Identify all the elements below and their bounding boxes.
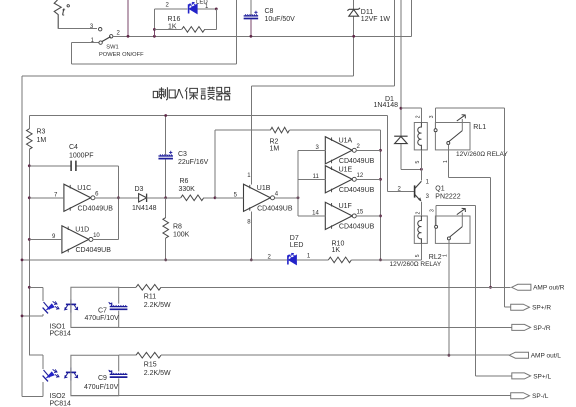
svg-text:LED: LED [290, 242, 304, 249]
svg-text:CD4049UB: CD4049UB [339, 158, 375, 165]
wire [401, 108, 422, 122]
inverter U1C [54, 184, 113, 212]
connector SP-/L [511, 393, 549, 400]
wire +12V rail [113, 0, 411, 36]
title text [153, 87, 230, 100]
wire [154, 9, 216, 30]
svg-text:U1A: U1A [339, 137, 353, 144]
wire RL1 common [443, 145, 492, 289]
svg-text:12VF: 12VF [361, 16, 378, 23]
svg-text:D7: D7 [290, 235, 299, 242]
relay RL2 coil [414, 216, 427, 243]
svg-text:PN2222: PN2222 [435, 194, 460, 201]
resistor R2 [214, 127, 381, 199]
wire [274, 196, 299, 199]
wire [356, 215, 380, 217]
capacitor C3 [158, 114, 208, 199]
wire [93, 238, 119, 240]
wire +12V distribution [22, 76, 354, 396]
wire ISO2 box [71, 355, 119, 396]
capacitor C8 [244, 0, 296, 38]
zener D11 [347, 0, 390, 76]
svg-text:12V/260Ω RELAY: 12V/260Ω RELAY [456, 151, 508, 158]
svg-text:10uF/50V: 10uF/50V [265, 16, 296, 23]
svg-text:R2: R2 [270, 138, 279, 145]
svg-text:AMP out/R: AMP out/R [533, 285, 565, 292]
svg-text:1M: 1M [270, 145, 280, 152]
svg-text:SP+/R: SP+/R [532, 305, 551, 312]
svg-text:6: 6 [95, 192, 99, 198]
wire [29, 287, 43, 301]
svg-text:2: 2 [357, 144, 361, 150]
svg-text:1W: 1W [380, 16, 391, 23]
svg-text:330K: 330K [179, 186, 196, 193]
svg-text:U1F: U1F [339, 203, 352, 210]
transistor Q1 [398, 180, 461, 202]
svg-text:U1B: U1B [257, 185, 271, 192]
wire RL2 pin5 [420, 243, 422, 260]
LED D7 [268, 235, 311, 264]
wire [22, 382, 43, 397]
svg-text:RL1: RL1 [473, 124, 486, 131]
svg-text:POWER ON/OFF: POWER ON/OFF [99, 52, 144, 58]
svg-text:RL2: RL2 [429, 254, 442, 261]
wire U1B pin8 stub [247, 212, 252, 262]
svg-text:CD4049UB: CD4049UB [76, 247, 112, 254]
inverter U1E [313, 166, 375, 194]
svg-text:R16: R16 [168, 16, 181, 23]
label [416, 115, 422, 118]
resistor R15 [119, 352, 509, 377]
connector SP+/R [511, 304, 552, 311]
svg-text:LED: LED [196, 0, 208, 5]
wire RL2 pin3 to SP+/L [436, 205, 512, 376]
relay RL1 contact [429, 108, 508, 158]
svg-text:3: 3 [429, 209, 435, 212]
svg-text:CD4049UB: CD4049UB [257, 206, 293, 213]
svg-text:t: t [62, 7, 66, 19]
svg-text:5: 5 [415, 161, 421, 164]
svg-text:R15: R15 [144, 362, 157, 369]
svg-text:470uF/10V: 470uF/10V [85, 315, 120, 322]
wire output bus [379, 130, 382, 261]
wire [117, 166, 120, 240]
svg-text:D3: D3 [135, 186, 144, 193]
wire [29, 355, 43, 369]
thermal fuse t [54, 0, 69, 29]
wire [154, 7, 217, 10]
wire [28, 149, 31, 355]
wire [95, 197, 119, 199]
inverter U1D [52, 226, 111, 254]
svg-text:1M: 1M [37, 137, 47, 144]
svg-text:ISO1: ISO1 [50, 323, 66, 330]
wire U1B pin1 stub [247, 173, 251, 184]
svg-text:1: 1 [247, 173, 251, 179]
svg-text:1K: 1K [332, 247, 341, 254]
switch SW1 [90, 24, 144, 58]
wire [21, 259, 287, 262]
wire SP-/R bus [71, 326, 512, 328]
svg-text:1000PF: 1000PF [69, 152, 94, 159]
wire input bus [297, 150, 299, 216]
wire RL2 common [448, 240, 451, 357]
svg-text:1N4148: 1N4148 [374, 102, 399, 109]
wire [153, 29, 155, 36]
wire [298, 149, 325, 151]
diode D3 [118, 186, 165, 212]
svg-text:SW1: SW1 [106, 44, 118, 50]
svg-text:100K: 100K [173, 232, 190, 239]
resistor R11 [119, 285, 511, 310]
svg-text:12: 12 [357, 173, 364, 179]
inverter U1F [312, 202, 375, 230]
wire U1B pin1 net [251, 0, 394, 184]
capacitor C7 [85, 302, 128, 322]
svg-text:1: 1 [307, 253, 311, 259]
connector AMP out/L [509, 352, 561, 359]
inverter U1B [234, 184, 293, 212]
svg-text:2.2K/5W: 2.2K/5W [144, 302, 171, 309]
svg-text:SP-/R: SP-/R [533, 325, 551, 332]
svg-text:R6: R6 [180, 178, 189, 185]
optocoupler ISO2 transistor [65, 368, 78, 381]
svg-text:D11: D11 [361, 9, 373, 16]
svg-text:R11: R11 [144, 294, 156, 301]
label [166, 0, 210, 10]
svg-text:SP+/L: SP+/L [533, 373, 551, 380]
wire SP-/L bus [71, 395, 511, 397]
resistor R6 [166, 178, 215, 200]
node [153, 35, 156, 38]
relay RL1 coil [414, 123, 427, 150]
svg-text:ISO2: ISO2 [50, 393, 66, 400]
svg-text:U1E: U1E [339, 166, 353, 173]
svg-text:U1C: U1C [77, 185, 91, 192]
svg-text:2: 2 [166, 3, 170, 9]
wire [21, 314, 43, 318]
capacitor C4 [29, 144, 118, 171]
inverter U1A [315, 137, 374, 165]
label [415, 161, 421, 164]
svg-text:AMP out/L: AMP out/L [531, 353, 562, 360]
svg-text:C8: C8 [265, 8, 274, 15]
svg-text:C4: C4 [69, 144, 78, 151]
svg-text:3: 3 [90, 24, 94, 30]
wire ISO1 box [71, 287, 119, 327]
svg-text:2.2K/5W: 2.2K/5W [144, 370, 171, 377]
svg-text:22uF/16V: 22uF/16V [178, 159, 209, 166]
label [416, 211, 422, 214]
svg-text:U1D: U1D [75, 227, 89, 234]
svg-text:PC814: PC814 [50, 330, 72, 337]
svg-text:1: 1 [443, 160, 449, 163]
svg-text:15: 15 [357, 210, 364, 216]
wire [356, 178, 380, 180]
svg-text:C7: C7 [98, 307, 107, 314]
wire RL1 pin3 to SP+/R [435, 108, 510, 307]
LED power indicator [189, 2, 198, 13]
svg-text:1: 1 [442, 254, 448, 257]
svg-text:1: 1 [426, 180, 430, 186]
wire [298, 178, 325, 180]
wire [153, 9, 156, 31]
resistor R8 [163, 198, 190, 261]
connector SP+/L [512, 373, 552, 380]
svg-text:CD4049UB: CD4049UB [78, 206, 114, 213]
wire [127, 0, 130, 38]
svg-text:R8: R8 [173, 224, 182, 231]
label [50, 393, 72, 407]
svg-text:5: 5 [415, 254, 421, 257]
svg-text:1N4148: 1N4148 [132, 205, 157, 212]
svg-text:1K: 1K [168, 24, 177, 31]
resistor R10 [297, 241, 422, 263]
resistor R3 [27, 116, 47, 150]
wire [29, 197, 64, 199]
connector AMP out/R [512, 284, 565, 291]
label [415, 254, 421, 257]
wire [356, 149, 380, 151]
wire [401, 168, 423, 171]
wire [29, 238, 62, 240]
svg-text:3: 3 [429, 115, 435, 118]
svg-text:C9: C9 [98, 375, 107, 382]
wire [72, 0, 237, 64]
connector SP-/R [512, 324, 551, 331]
svg-text:2: 2 [416, 211, 422, 214]
svg-text:Q1: Q1 [435, 186, 444, 193]
svg-text:2: 2 [416, 115, 422, 118]
svg-text:12V/260Ω RELAY: 12V/260Ω RELAY [390, 261, 442, 268]
svg-text:PC814: PC814 [50, 400, 72, 407]
resistor R16 [168, 16, 205, 32]
svg-text:10: 10 [93, 233, 100, 239]
optocoupler ISO1 transistor [65, 300, 78, 313]
wire [29, 116, 414, 192]
wire [58, 28, 97, 30]
svg-text:8: 8 [247, 220, 251, 226]
wire [420, 202, 422, 216]
diode D1 [374, 0, 408, 169]
svg-text:C3: C3 [178, 151, 187, 158]
relay RL2 contact [390, 205, 471, 268]
capacitor C9 [84, 370, 127, 391]
wire [215, 197, 244, 199]
optocoupler ISO2 LED [43, 369, 59, 381]
label [50, 323, 72, 337]
optocoupler ISO1 LED [43, 301, 59, 313]
svg-text:CD4049UB: CD4049UB [339, 224, 375, 231]
svg-text:R3: R3 [37, 129, 46, 136]
wire [420, 150, 422, 181]
svg-text:4: 4 [275, 192, 279, 198]
svg-text:SP-/L: SP-/L [532, 393, 549, 400]
svg-text:3: 3 [426, 194, 430, 200]
wire [298, 215, 325, 217]
svg-text:470uF/10V: 470uF/10V [84, 384, 119, 391]
svg-text:CD4049UB: CD4049UB [339, 187, 375, 194]
